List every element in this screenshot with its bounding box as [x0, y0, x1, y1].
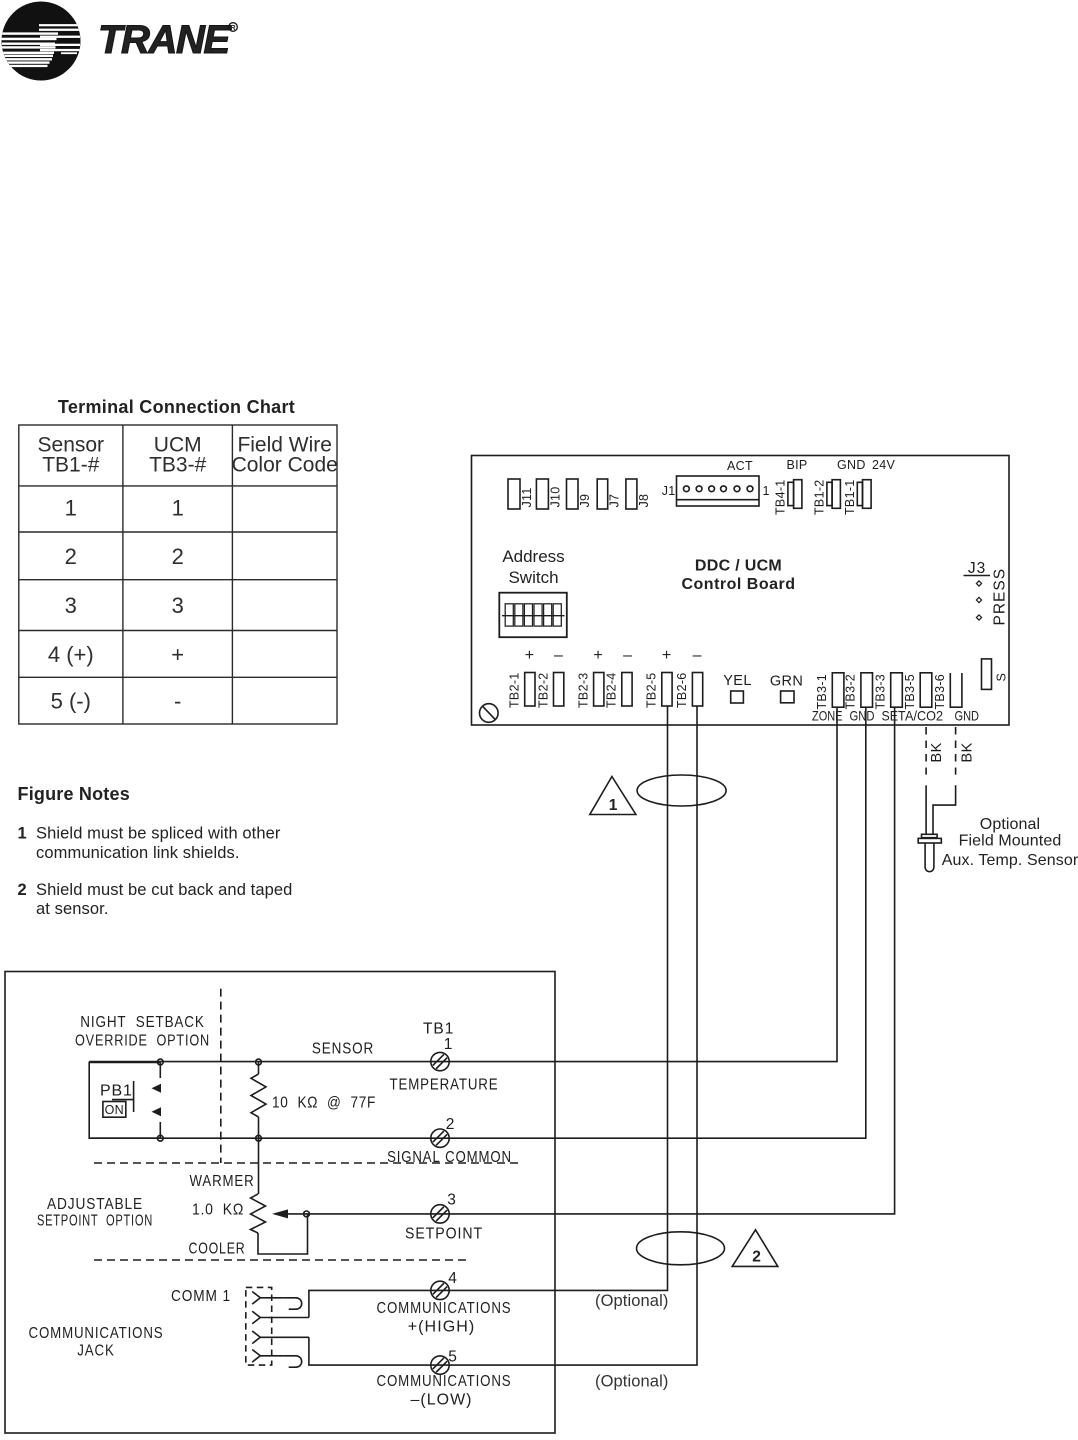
svg-text:–: – — [623, 647, 633, 664]
svg-text:COMMUNICATIONS: COMMUNICATIONS — [377, 1300, 512, 1317]
label ADJUSTABLE SETPOINT OPTION — [37, 1196, 153, 1230]
svg-text:SIGNAL COMMON: SIGNAL COMMON — [387, 1149, 512, 1166]
svg-text:BK: BK — [960, 742, 976, 762]
svg-text:Shield must be cut back and ta: Shield must be cut back and taped — [36, 881, 292, 899]
dashed option divider horizontal 2 — [94, 1259, 468, 1261]
svg-text:–: – — [554, 647, 564, 664]
svg-text:1: 1 — [444, 1036, 454, 1053]
svg-text:S: S — [995, 673, 1009, 682]
pushbutton contact arrows — [152, 1084, 162, 1117]
jack contact 2 — [252, 1311, 309, 1324]
svg-text:TB3-1: TB3-1 — [815, 674, 829, 710]
terminal TB2-5 — [645, 672, 673, 708]
node top of thermistor — [256, 1059, 262, 1065]
aux sensor caption — [942, 816, 1078, 869]
connector J8 — [626, 479, 651, 509]
svg-text:3: 3 — [172, 593, 184, 618]
terminal TB3-2 — [844, 673, 873, 710]
label ON boxed — [103, 1102, 126, 1118]
setpoint potentiometer zigzag — [251, 1194, 308, 1254]
svg-text:Figure Notes: Figure Notes — [18, 784, 130, 804]
svg-text:ADJUSTABLE: ADJUSTABLE — [47, 1196, 143, 1213]
figure note 1 — [18, 825, 281, 863]
svg-text:TB1: TB1 — [423, 1021, 454, 1038]
svg-text:TB2-3: TB2-3 — [576, 672, 590, 708]
svg-text:Shield must be spliced with ot: Shield must be spliced with other — [36, 825, 281, 843]
svg-text:1: 1 — [18, 825, 27, 843]
svg-text:+: + — [171, 642, 184, 667]
svg-text:COOLER: COOLER — [189, 1241, 246, 1258]
mounting hole — [480, 704, 499, 723]
connector J7 — [597, 479, 622, 509]
terminal TB3-6 — [933, 673, 962, 710]
svg-text:TB4-1: TB4-1 — [774, 479, 788, 515]
svg-text:4 (+): 4 (+) — [48, 642, 94, 667]
svg-text:1: 1 — [763, 484, 770, 498]
label COMMUNICATIONS -(LOW) — [377, 1373, 512, 1409]
svg-text:J8: J8 — [637, 494, 651, 508]
terminal TB2-6 — [675, 672, 703, 708]
Trane logo circle with swoosh stripes — [2, 2, 81, 81]
jack contact 3 — [252, 1331, 309, 1344]
connector J9 — [567, 479, 593, 509]
svg-text:ZONE: ZONE — [812, 709, 843, 724]
screw terminal 5 — [431, 1356, 449, 1374]
svg-text:J1: J1 — [662, 484, 676, 498]
terminal TB2-3 — [576, 672, 603, 708]
jack contact 1 with hook — [252, 1292, 302, 1310]
dashed option divider vertical — [220, 989, 222, 1163]
J3 diamond pins — [976, 581, 981, 620]
svg-text:SETPOINT: SETPOINT — [405, 1226, 483, 1243]
svg-text:2: 2 — [172, 544, 184, 569]
svg-text:24V: 24V — [872, 458, 896, 472]
svg-text:TB2-4: TB2-4 — [605, 672, 619, 708]
svg-text:1: 1 — [65, 496, 77, 521]
svg-text:5 (-): 5 (-) — [51, 689, 91, 714]
svg-text:Address: Address — [502, 547, 564, 566]
svg-text:+: + — [525, 647, 535, 664]
callout triangle 2 — [732, 1230, 778, 1267]
screw terminal 1 — [431, 1052, 449, 1070]
svg-text:J11: J11 — [520, 487, 534, 507]
screw terminal 4 — [431, 1281, 449, 1299]
terminal TB3-3 — [874, 673, 903, 710]
svg-text:COMMUNICATIONS: COMMUNICATIONS — [377, 1373, 512, 1390]
dashed option divider horizontal 1 — [94, 1162, 523, 1164]
svg-text:R: R — [230, 25, 235, 32]
svg-text:OVERRIDE OPTION: OVERRIDE OPTION — [75, 1033, 210, 1050]
terminal TB2-2 — [536, 672, 564, 708]
connector S — [982, 659, 1009, 690]
callout triangle 1 — [590, 777, 636, 815]
polarity marks over TB2 row — [525, 647, 703, 664]
svg-text:10 KΩ @ 77F: 10 KΩ @ 77F — [272, 1095, 376, 1112]
svg-text:JACK: JACK — [77, 1343, 114, 1360]
svg-text:GND: GND — [837, 458, 866, 472]
svg-text:SETPOINT OPTION: SETPOINT OPTION — [37, 1213, 153, 1230]
wire to aux sensor left lead — [925, 785, 927, 834]
svg-text:TB1-2: TB1-2 — [813, 479, 827, 515]
svg-text:4: 4 — [448, 1270, 458, 1287]
table header text — [38, 434, 338, 477]
jack contact 4 with hook — [252, 1350, 302, 1368]
table grid — [19, 425, 337, 724]
node bottom of PB1 — [157, 1135, 163, 1141]
board title DDC / UCM Control Board — [681, 558, 795, 594]
svg-text:COMM 1: COMM 1 — [171, 1288, 231, 1305]
node wiper — [304, 1211, 310, 1217]
aux temp sensor probe — [918, 834, 941, 871]
svg-text:3: 3 — [65, 593, 77, 618]
screw terminal 2 — [431, 1129, 449, 1147]
svg-text:SET: SET — [882, 709, 907, 724]
svg-text:2: 2 — [446, 1116, 456, 1133]
svg-text:2: 2 — [65, 544, 77, 569]
svg-text:TRANE: TRANE — [98, 18, 231, 62]
svg-text:–: – — [693, 647, 703, 664]
label NIGHT SETBACK OVERRIDE OPTION — [75, 1014, 210, 1050]
svg-text:BK: BK — [929, 742, 945, 762]
svg-text:TB3-2: TB3-2 — [844, 674, 858, 710]
svg-text:COMMUNICATIONS: COMMUNICATIONS — [29, 1325, 164, 1342]
svg-text:TB3-6: TB3-6 — [933, 674, 947, 710]
dashed BK wire from TB3-5 — [925, 727, 927, 775]
svg-text:SENSOR: SENSOR — [312, 1041, 374, 1058]
terminal TB3-5 — [903, 673, 932, 710]
svg-text:TB1-1: TB1-1 — [843, 479, 857, 515]
svg-text:WARMER: WARMER — [190, 1173, 255, 1190]
svg-text:2: 2 — [18, 881, 27, 899]
svg-text:GND: GND — [850, 709, 875, 724]
svg-text:(Optional): (Optional) — [595, 1373, 668, 1391]
svg-text:Control Board: Control Board — [681, 576, 795, 593]
connector J3 with underline — [964, 560, 991, 577]
svg-text:+: + — [593, 647, 603, 664]
connector J1 with 6 pins — [662, 476, 770, 506]
wire TB3-3 SET to terminal 3 — [307, 707, 895, 1214]
terminal TB2-1 — [508, 672, 536, 708]
figure note 2 — [18, 881, 293, 918]
svg-text:PB1: PB1 — [100, 1083, 133, 1100]
node top of PB1 — [157, 1059, 163, 1065]
potentiometer wiper arrow — [272, 1209, 307, 1218]
svg-text:Aux. Temp. Sensor: Aux. Temp. Sensor — [942, 852, 1078, 869]
terminal TB3-1 — [815, 673, 844, 710]
wire to aux sensor right lead — [933, 785, 956, 834]
svg-text:-: - — [174, 689, 181, 714]
svg-text:TB2-2: TB2-2 — [536, 672, 550, 708]
screw terminal 3 — [431, 1205, 449, 1223]
svg-text:1.0 KΩ: 1.0 KΩ — [192, 1202, 244, 1219]
svg-text:YEL: YEL — [723, 673, 752, 689]
svg-text:2: 2 — [752, 1249, 761, 1266]
label COMMUNICATIONS JACK — [29, 1325, 164, 1360]
svg-text:Optional: Optional — [980, 816, 1040, 833]
wire TB3-1 ZONE to terminal 1 — [89, 707, 837, 1061]
svg-text:at sensor.: at sensor. — [36, 900, 109, 918]
svg-text:Field Mounted: Field Mounted — [959, 833, 1062, 850]
connector J10 — [536, 479, 562, 509]
svg-text:1: 1 — [609, 797, 618, 814]
svg-text:TB2-1: TB2-1 — [508, 672, 522, 708]
svg-text:Switch: Switch — [508, 568, 558, 587]
pushbutton PB1 box — [89, 1062, 160, 1138]
svg-text:TEMPERATURE: TEMPERATURE — [390, 1077, 499, 1094]
svg-text:J10: J10 — [548, 486, 562, 507]
svg-text:3: 3 — [447, 1192, 457, 1209]
svg-text:(Optional): (Optional) — [595, 1292, 668, 1310]
LED GRN — [770, 674, 803, 703]
address DIP switch — [499, 593, 567, 638]
connector J11 — [508, 479, 534, 509]
node bottom of thermistor — [256, 1135, 262, 1141]
thermistor R 10K zigzag — [251, 1062, 266, 1194]
Address Switch label — [502, 547, 564, 587]
svg-text:TB1-#: TB1-# — [42, 454, 100, 477]
svg-text:GRN: GRN — [770, 674, 803, 690]
svg-text:+: + — [662, 647, 672, 664]
svg-text:TB3-#: TB3-# — [149, 454, 207, 477]
wire TB2-6 to terminal 5 (comm -) — [309, 706, 697, 1365]
svg-text:TB2-5: TB2-5 — [645, 672, 659, 708]
svg-text:DDC / UCM: DDC / UCM — [695, 558, 782, 575]
Trane wordmark — [98, 18, 237, 62]
wire TB3-2 GND to terminal 2 — [89, 707, 866, 1138]
svg-text:ON: ON — [105, 1103, 124, 1117]
connector TB1-1 — [843, 479, 871, 515]
sensor schematic enclosure box — [5, 972, 555, 1434]
svg-text:TB3-3: TB3-3 — [874, 674, 888, 710]
svg-text:Color Code: Color Code — [232, 454, 338, 477]
LED YEL — [723, 673, 752, 703]
svg-text:PRESS: PRESS — [992, 568, 1009, 626]
svg-text:–(LOW): –(LOW) — [411, 1392, 473, 1409]
svg-text:Terminal Connection Chart: Terminal Connection Chart — [58, 397, 295, 417]
wire TB2-5 to terminal 4 (comm +) — [309, 706, 668, 1318]
terminal TB2-4 — [605, 672, 633, 708]
svg-text:GND: GND — [955, 709, 980, 724]
table body text — [48, 496, 184, 714]
comm jack dashed housing — [246, 1287, 272, 1365]
svg-text:J9: J9 — [578, 494, 592, 508]
svg-text:TB2-6: TB2-6 — [675, 672, 689, 708]
connector TB4-1 — [774, 479, 802, 515]
svg-text:communication link shields.: communication link shields. — [36, 844, 240, 862]
label COMMUNICATIONS +(HIGH) — [377, 1300, 512, 1336]
svg-text:+(HIGH): +(HIGH) — [408, 1319, 476, 1336]
svg-text:TB3-5: TB3-5 — [903, 674, 917, 710]
connector TB1-2 — [813, 479, 841, 515]
shield splice ellipse 1 — [637, 775, 726, 806]
svg-text:J3: J3 — [968, 560, 986, 577]
svg-text:BIP: BIP — [786, 458, 807, 472]
svg-text:A/CO2: A/CO2 — [905, 709, 943, 724]
shield splice ellipse 2 — [637, 1232, 725, 1265]
dashed BK wire from TB3-6 — [955, 727, 957, 775]
svg-text:J7: J7 — [608, 494, 622, 508]
svg-text:ACT: ACT — [727, 459, 753, 473]
net labels ZONE GND SET A/CO2 GND — [812, 709, 979, 724]
pushbutton actuator bar — [112, 1081, 134, 1112]
svg-text:NIGHT SETBACK: NIGHT SETBACK — [80, 1014, 205, 1031]
svg-text:1: 1 — [172, 496, 184, 521]
label TB1 and pin 1 — [423, 1021, 454, 1054]
DDC/UCM control board outline — [472, 456, 1010, 726]
